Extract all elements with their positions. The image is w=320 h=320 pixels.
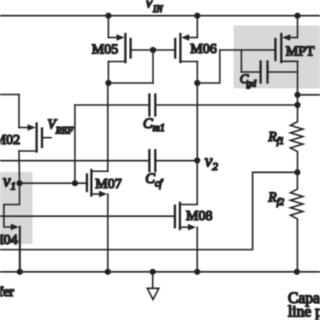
node VIN-MPT bbox=[294, 13, 300, 19]
transistor M04 bbox=[11, 224, 20, 272]
capacitor Cm1 bbox=[75, 95, 298, 116]
shaded box around M04 bbox=[0, 172, 33, 244]
wire M06 drain down to v2 bbox=[196, 83, 198, 161]
node rail M08 bbox=[194, 269, 200, 275]
node v2 bbox=[194, 157, 200, 163]
node M05 drain bbox=[105, 80, 111, 86]
node VIN-M05 bbox=[105, 13, 111, 19]
svg-text:M04: M04 bbox=[0, 233, 18, 248]
transistor M06 bbox=[153, 16, 197, 83]
capacitor Ccf bbox=[0, 150, 197, 171]
node v1-Cm1 branch bbox=[72, 180, 78, 186]
transistor M08 bbox=[0, 161, 197, 272]
node M06 drain bbox=[194, 80, 200, 86]
transistor M07 bbox=[87, 83, 108, 272]
resistor Rf1 bbox=[290, 61, 303, 172]
transistor MPT bbox=[275, 16, 297, 62]
svg-text:Ccf: Ccf bbox=[145, 171, 163, 189]
svg-text:M08: M08 bbox=[186, 209, 212, 224]
ground symbol bbox=[147, 272, 159, 300]
svg-text:Rf2: Rf2 bbox=[267, 189, 284, 207]
node M05 gate bbox=[150, 47, 156, 53]
resistor Rf2 bbox=[290, 172, 303, 271]
svg-text:VIN: VIN bbox=[145, 0, 163, 15]
node v1 bbox=[16, 180, 22, 186]
transistor M02 bbox=[0, 95, 51, 184]
node output top bbox=[294, 92, 300, 98]
node feedback tap bbox=[294, 169, 300, 175]
wire feedback tap to left bbox=[0, 172, 297, 249]
node rail ground bbox=[150, 269, 156, 275]
node VIN-M06 bbox=[194, 13, 200, 19]
wire ground rail bbox=[0, 271, 320, 273]
svg-text:Cm1: Cm1 bbox=[143, 116, 165, 134]
wire M05 diode connection bbox=[108, 50, 153, 83]
svg-text:Rf1: Rf1 bbox=[267, 129, 284, 147]
transistor M05 bbox=[108, 16, 153, 83]
node rail M04 bbox=[17, 269, 23, 275]
svg-text:v2: v2 bbox=[205, 152, 219, 173]
svg-text:M07: M07 bbox=[95, 177, 121, 192]
svg-text:line pa: line pa bbox=[288, 304, 320, 320]
capacitor Cgd bbox=[241, 50, 297, 83]
svg-text:VREF: VREF bbox=[48, 117, 74, 137]
wire v1 jog down to M04 bbox=[4, 183, 20, 227]
node rail M07 bbox=[105, 269, 111, 275]
node Cm1 right bbox=[294, 102, 300, 108]
wire v1 to M07 gate bbox=[20, 182, 87, 184]
svg-text:M05: M05 bbox=[92, 42, 118, 57]
wire VIN rail bbox=[0, 15, 320, 17]
wire output to right edge bbox=[298, 94, 320, 96]
svg-text:M02: M02 bbox=[0, 133, 20, 148]
svg-text:M06: M06 bbox=[190, 42, 216, 57]
node rail Rf2 bbox=[294, 269, 300, 275]
wire Cm1 branch down to v1 bbox=[74, 105, 76, 183]
svg-text:MPT: MPT bbox=[286, 44, 315, 59]
svg-text:ffer: ffer bbox=[0, 285, 14, 300]
wire M06 drain to MPT gate bbox=[197, 50, 275, 83]
shaded box around MPT and Cgd bbox=[234, 25, 320, 88]
